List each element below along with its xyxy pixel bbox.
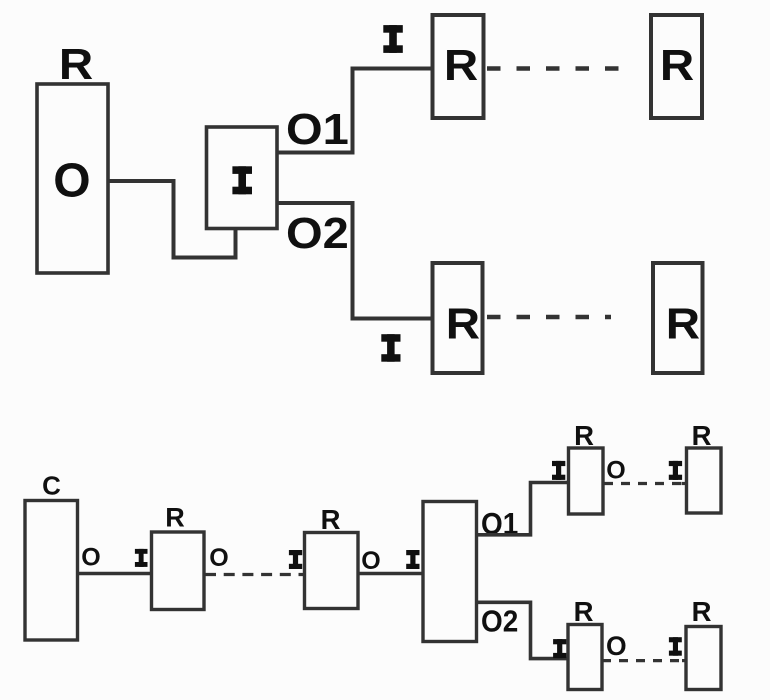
svg-text:C: C xyxy=(42,471,61,501)
label I at top R input xyxy=(383,25,403,53)
wire stub into lower-2 xyxy=(682,659,686,662)
svg-text:R: R xyxy=(59,40,93,89)
wire O2 to bottom R xyxy=(277,203,433,319)
label I at upper-2 input xyxy=(669,461,682,480)
svg-text:R: R xyxy=(444,40,478,89)
wire O to I xyxy=(108,181,236,258)
dashed wire lower-1 to lower-2 xyxy=(602,659,686,662)
label I at first relay input xyxy=(135,549,148,567)
svg-text:O2: O2 xyxy=(481,604,518,639)
svg-text:O: O xyxy=(53,155,90,208)
wire O2 to lower relay xyxy=(477,602,569,658)
svg-text:R: R xyxy=(666,299,700,348)
svg-text:R: R xyxy=(660,40,694,89)
dashed wire top R to far R xyxy=(487,66,619,70)
block R mid-left xyxy=(433,263,483,373)
wire O1 to upper relay xyxy=(477,483,569,535)
label I at lower relay input xyxy=(553,639,566,658)
block I (splitter) xyxy=(207,127,278,229)
wire C to first relay xyxy=(78,572,152,576)
svg-text:R: R xyxy=(692,596,712,627)
block R chain-1 xyxy=(152,532,205,610)
svg-text:O: O xyxy=(81,544,100,572)
dashed wire chain-1 to chain-2 xyxy=(205,573,306,576)
label I at upper relay input xyxy=(552,461,565,480)
svg-text:O: O xyxy=(606,631,627,661)
svg-text:O: O xyxy=(209,544,228,572)
wire O1 to top R xyxy=(277,69,433,153)
svg-text:O2: O2 xyxy=(286,208,349,257)
dashed wire mid R to far R xyxy=(487,315,611,319)
svg-text:R: R xyxy=(321,504,341,535)
label I at chain-2 input xyxy=(289,550,302,569)
label I at bottom R input xyxy=(381,334,400,362)
dashed wire upper-1 to upper-2 xyxy=(604,482,686,485)
block R upper-2 xyxy=(687,448,722,513)
label I at splitter input xyxy=(406,550,419,569)
block R mid-right xyxy=(653,263,703,373)
block O (root recorder) xyxy=(37,84,108,273)
svg-text:O: O xyxy=(606,457,625,485)
block R top-left xyxy=(433,15,484,118)
wire chain-2 to splitter xyxy=(358,572,423,576)
svg-text:O: O xyxy=(361,547,380,575)
svg-text:R: R xyxy=(692,420,712,451)
block C (capture source) xyxy=(25,501,78,641)
wire stub into upper-2 xyxy=(682,482,687,485)
block splitter (bottom) xyxy=(423,502,477,642)
svg-text:R: R xyxy=(574,596,594,627)
block R top-right xyxy=(651,15,702,118)
block R lower-1 xyxy=(568,625,602,690)
svg-text:R: R xyxy=(574,420,594,451)
label I inside splitter block xyxy=(232,166,252,194)
svg-text:O1: O1 xyxy=(286,104,349,153)
block R upper-1 xyxy=(569,448,604,514)
svg-text:R: R xyxy=(165,503,185,533)
svg-text:R: R xyxy=(446,299,480,348)
block R chain-2 xyxy=(305,533,359,609)
label I at lower-2 input xyxy=(669,637,682,656)
block R lower-2 xyxy=(686,627,721,690)
